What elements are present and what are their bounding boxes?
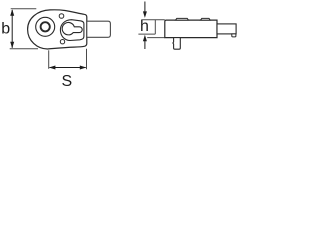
dimension b line with arrows [10, 9, 14, 48]
h box right vertical [154, 20, 156, 34]
svg-text:h: h [140, 18, 149, 35]
svg-text:b: b [1, 21, 10, 38]
top pin hole [59, 14, 64, 19]
svg-text:S: S [61, 73, 72, 90]
end tab under tang [232, 34, 236, 37]
dimension S left extension line [48, 50, 50, 69]
top bump plate 2 [201, 18, 211, 20]
dimension b top extension line [11, 8, 37, 10]
h bottom reference line [138, 33, 155, 35]
keyhole slot (lever) [62, 22, 82, 34]
h top reference line [142, 19, 165, 21]
dimension b bottom extension line [10, 48, 38, 50]
square drive tang (top view) [87, 21, 111, 37]
dimension S line with arrows [49, 66, 86, 70]
head outer outline [28, 10, 87, 49]
reverse-lever boss outline [60, 20, 84, 41]
side view main body [165, 20, 217, 37]
top bump plate 1 [176, 18, 189, 20]
ratchet gear inner circle [41, 22, 50, 31]
bottom pin hole [60, 40, 64, 44]
dimension S right extension line [86, 49, 88, 70]
dimension h up arrow [143, 35, 147, 49]
square drive stub below body [173, 38, 180, 50]
body bottom extension line [147, 37, 165, 39]
tang (side view) [217, 24, 236, 34]
ratchet gear outer circle [36, 17, 55, 36]
dimension h down arrow [143, 2, 147, 18]
